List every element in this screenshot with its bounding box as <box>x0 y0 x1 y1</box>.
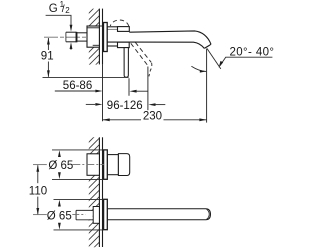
20-40 leader <box>220 57 226 65</box>
96-126 left-pointing arrow <box>148 103 155 106</box>
spout root top edge <box>107 29 117 31</box>
dashed handle-up arc <box>110 20 129 26</box>
handle mount (bottom) <box>118 42 130 47</box>
upper O65 arrow up <box>58 150 61 157</box>
angle swing arc <box>191 66 206 71</box>
svg-text:G: G <box>49 3 58 15</box>
91 arrow down <box>47 70 50 77</box>
extension line: wall face down <box>102 64 104 121</box>
angle arc arrowhead <box>200 70 207 73</box>
extension line: dashed lever position <box>147 67 149 111</box>
lower unit supply tube behind wall <box>76 210 93 219</box>
svg-text:96-126: 96-126 <box>107 100 143 112</box>
56-86 right-pointing arrow at wall <box>95 90 102 93</box>
upper O65 top extension <box>52 149 104 151</box>
lower O65 arrow up <box>58 200 61 207</box>
230 dimension line <box>103 119 142 121</box>
upper centerline <box>72 164 104 166</box>
110 arrow down <box>36 208 39 215</box>
91 dimension line <box>47 38 49 50</box>
wall line A (bottom view) <box>98 137 100 247</box>
svg-text:Ø 65: Ø 65 <box>48 160 73 172</box>
110 upper centerline stub <box>33 164 47 166</box>
escutcheon (side view) <box>104 23 108 52</box>
svg-text:110: 110 <box>29 185 47 197</box>
spout end inner lip <box>207 209 210 219</box>
lower O65 bottom extension <box>54 229 104 231</box>
91 bottom extension line (lever tip level) <box>43 76 129 78</box>
dashed swung lever edge 2 <box>135 42 151 62</box>
wall line A (top view) <box>98 9 100 65</box>
wall line B (top view) <box>102 9 104 65</box>
extension line: spout outlet <box>206 49 208 123</box>
angle stream diagonal <box>207 48 221 69</box>
lower spout tube (plan) <box>107 209 210 220</box>
nipple flange cap <box>76 32 78 42</box>
dashed swung lever edge 1 <box>131 43 148 65</box>
lower centerline <box>72 214 85 216</box>
lower unit nut behind wall <box>93 207 99 224</box>
wall hatching (top view) <box>84 0 102 83</box>
svg-text:2: 2 <box>65 6 70 15</box>
mousseur inner line <box>205 45 210 48</box>
110 dimension line <box>37 165 39 183</box>
upper unit knob <box>118 154 129 176</box>
96-126 right tail <box>155 104 165 106</box>
wall hatching (bottom view) <box>84 129 102 250</box>
lower unit escutcheon <box>104 199 108 229</box>
extension line: lever edge <box>128 78 130 96</box>
svg-text:91: 91 <box>41 51 54 63</box>
230 right arrow <box>199 118 206 121</box>
dashed swung lever tip <box>149 63 152 77</box>
spout bottom line <box>107 42 204 48</box>
spout body fill <box>107 30 211 49</box>
110 lower centerline stub <box>33 214 47 216</box>
G1/2 leader line <box>46 15 71 25</box>
230 left arrow <box>103 118 110 121</box>
collar top edge <box>107 26 117 28</box>
union block top line to wall <box>99 25 102 27</box>
96-126 left tail <box>86 103 96 105</box>
wall line B (bottom view) <box>102 137 104 247</box>
lower O65 top extension <box>54 198 104 200</box>
handle base (top) <box>118 27 130 32</box>
union block bottom sleeve line <box>93 44 100 46</box>
svg-text:Ø 65: Ø 65 <box>47 210 72 222</box>
inlet nipple G1/2 <box>66 32 77 42</box>
upper unit escutcheon <box>104 150 108 179</box>
56-86 leader line <box>55 90 96 92</box>
pipe centerline (also 91-dim top extension) <box>44 36 87 38</box>
mid cylinder <box>77 33 87 41</box>
union block top sleeve line <box>87 27 99 29</box>
collar bottom edge <box>107 45 117 47</box>
20-40 leader arrowhead <box>219 61 224 68</box>
20-40 underline <box>225 56 272 58</box>
spout end face <box>204 44 211 48</box>
lower O65 arrow down <box>58 223 61 230</box>
96-126 right-pointing arrow <box>95 103 102 106</box>
upper unit collar <box>107 155 118 175</box>
upper unit concealed box <box>87 154 99 176</box>
91 arrow up <box>47 38 50 45</box>
union block behind wall <box>87 26 99 47</box>
110 arrow up <box>36 165 39 172</box>
svg-text:56-86: 56-86 <box>63 80 92 92</box>
G1/2 arrow down <box>70 25 73 32</box>
svg-text:230: 230 <box>143 110 162 122</box>
G1/2 arrow up <box>70 42 73 49</box>
spout top line (visible part) <box>129 31 211 44</box>
upper O65 arrow down <box>58 172 61 179</box>
56-86 left-pointing arrow at lever <box>130 90 137 93</box>
lever handle <box>124 48 128 78</box>
upper O65 bottom extension <box>52 178 104 180</box>
